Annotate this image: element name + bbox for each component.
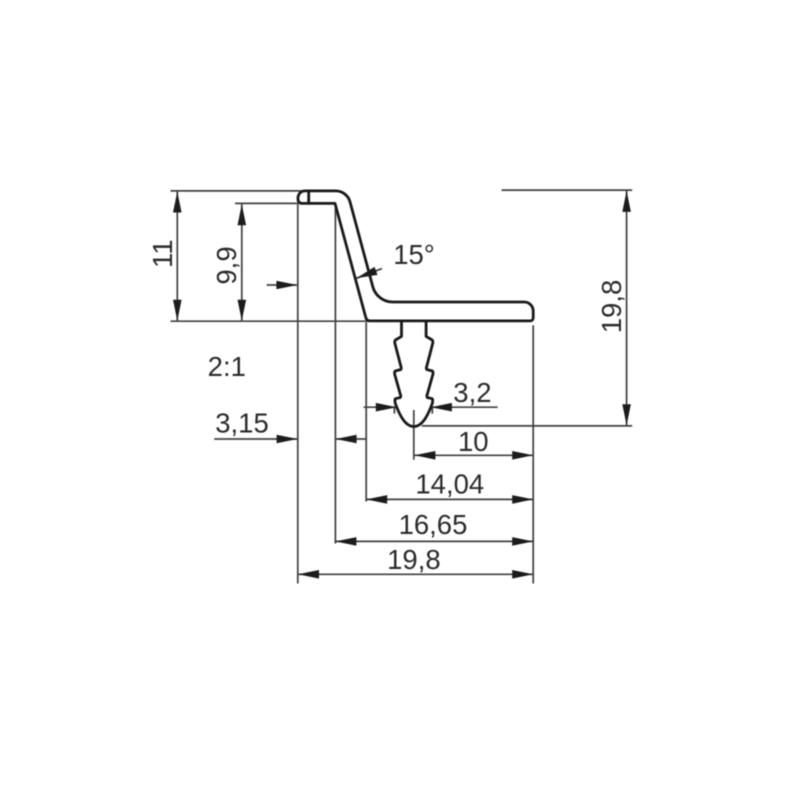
- svg-text:14,04: 14,04: [415, 469, 484, 500]
- svg-text:3,2: 3,2: [453, 377, 491, 408]
- svg-text:16,65: 16,65: [399, 509, 468, 540]
- svg-text:19,8: 19,8: [387, 544, 441, 575]
- svg-text:19,8: 19,8: [596, 280, 627, 334]
- svg-text:10: 10: [458, 426, 489, 457]
- svg-text:3,15: 3,15: [215, 408, 269, 439]
- svg-text:9,9: 9,9: [211, 246, 242, 284]
- svg-text:15°: 15°: [393, 239, 435, 270]
- svg-text:2:1: 2:1: [208, 351, 246, 382]
- svg-text:11: 11: [147, 239, 178, 268]
